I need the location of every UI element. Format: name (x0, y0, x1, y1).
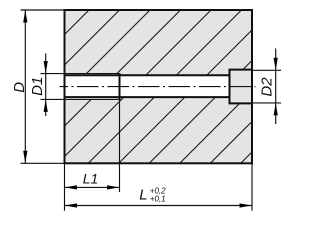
thread major diameter line bottom (thin, doubles as D1 extension line) (41, 98, 120, 100)
counterbore D2 step line (thick vertical) (229, 69, 231, 105)
thread end line at L1 (thick vertical) (119, 73, 121, 100)
extension line D bottom (21, 162, 65, 164)
core bore bottom edge (thick) (65, 96, 230, 98)
arrow D2 top (pointing down) (274, 58, 278, 71)
arrow D bottom (23, 151, 27, 164)
svg-text:+0,1: +0,1 (150, 195, 166, 204)
svg-text:D2: D2 (258, 77, 275, 97)
svg-text:L: L (139, 186, 147, 203)
counterbore D2 bottom edge (thick) (230, 102, 253, 104)
centerline (dash-dot) (60, 86, 256, 88)
dimension line D2 (275, 49, 277, 125)
arrow D1 top (pointing down) (44, 61, 48, 74)
svg-text:D: D (11, 82, 28, 93)
counterbore D1 / thread zone interior (white) (65, 74, 120, 100)
extension line D top (21, 9, 65, 11)
arrow D top (23, 10, 27, 23)
dimension line L (65, 205, 253, 207)
dimension line D (24, 10, 26, 163)
hatch lines 45deg (0, 2, 320, 165)
extension line L right (block bottom-right corner) (251, 163, 253, 211)
arrow D1 bottom (pointing up) (44, 99, 48, 112)
arrow L left (65, 203, 78, 207)
counterbore D2 top edge (thick) (230, 69, 253, 71)
core bore interior (white) (120, 75, 230, 97)
svg-text:D1: D1 (29, 77, 46, 96)
extension line left (block bottom-left corner, for L1 and L) (64, 163, 66, 211)
dimension line D1 (45, 54, 47, 117)
arrow L1 left (65, 185, 78, 189)
extension line D2 bottom (253, 102, 281, 104)
arrow L right (240, 203, 253, 207)
arrow D2 bottom (pointing up) (274, 103, 278, 116)
thread major diameter line top (thin, doubles as D1 extension line) (41, 73, 120, 75)
svg-text:L1: L1 (83, 171, 99, 187)
arrow L1 right (107, 185, 120, 189)
extension line D2 top (253, 69, 281, 71)
dimension line L1 (65, 186, 120, 188)
core bore top edge (thick) (65, 74, 230, 76)
block outline (thick) (65, 10, 253, 163)
block cross-section body (grey fill) (65, 10, 253, 163)
extension line L1 right (from thread end) (119, 100, 121, 192)
